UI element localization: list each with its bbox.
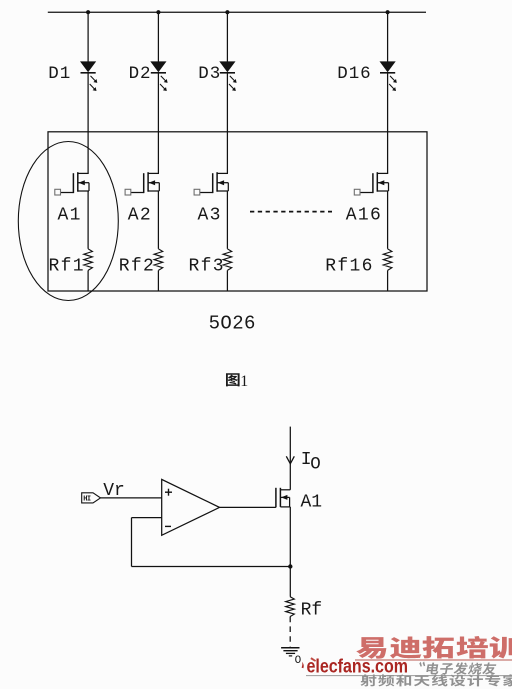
wire resistor Rf2 to box bottom — [157, 270, 159, 291]
svg-text:D3: D3 — [198, 64, 221, 84]
node junction dot column 16 — [386, 10, 390, 14]
wire resistor Rf16 to box bottom — [387, 270, 389, 291]
svg-text:A2: A2 — [128, 206, 152, 226]
node junction dot column 1 — [86, 10, 90, 14]
watermark text 易迪拓培训 — [356, 636, 512, 659]
MOSFET A3 — [194, 172, 228, 195]
wire MOSFET A1 source to resistor Rf1 — [87, 191, 89, 249]
LED diode D16 — [380, 62, 397, 91]
resistor Rf — [286, 597, 295, 617]
wire LED D16 cathode into box — [387, 73, 389, 174]
wire op-amp output to gate — [220, 506, 276, 508]
svg-text:Rf16: Rf16 — [325, 257, 373, 277]
LED diode D3 — [220, 62, 237, 91]
svg-text:Rf3: Rf3 — [189, 257, 225, 277]
wire resistor Rf1 to box bottom — [87, 270, 89, 291]
wire feedback horizontal to node — [132, 566, 291, 568]
svg-text:A1: A1 — [301, 493, 323, 513]
svg-text:Vr: Vr — [103, 481, 125, 501]
MOSFET A2 — [125, 172, 159, 195]
node junction dot column 2 — [156, 10, 160, 14]
wire op-amp minus input feedback left — [132, 517, 162, 519]
svg-text:D2: D2 — [129, 64, 152, 84]
svg-text:A3: A3 — [198, 206, 222, 226]
wire feedback vertical — [131, 518, 133, 567]
LED diode D2 — [151, 62, 168, 91]
wire resistor Rf3 to box bottom — [226, 270, 228, 291]
wire MOSFET A2 source to resistor Rf2 — [157, 191, 159, 249]
svg-text:5O26: 5O26 — [209, 312, 256, 334]
resistor Rf1 — [84, 249, 93, 271]
wire dashed continuation between A3 and A16 — [250, 211, 332, 213]
wire top supply rail — [48, 11, 426, 13]
node junction dot column 3 — [225, 10, 229, 14]
svg-text:D16: D16 — [337, 64, 371, 84]
svg-text:D1: D1 — [48, 64, 71, 84]
watermark quote mark — [419, 661, 425, 666]
node feedback junction dot — [288, 564, 292, 568]
svg-text:O: O — [295, 655, 302, 667]
wire rail to LED D3 — [226, 12, 228, 62]
watermark red underline — [355, 659, 512, 661]
wire rail to LED D16 — [387, 12, 389, 62]
svg-text:Rf1: Rf1 — [49, 257, 85, 277]
op-amp plus sign — [165, 489, 172, 496]
svg-text:1: 1 — [240, 373, 248, 390]
MOSFET A1 output stage — [276, 488, 290, 508]
resistor Rf16 — [383, 249, 392, 271]
ellipse highlight around A1/Rf1 column — [18, 142, 118, 301]
wire MOSFET A3 source to resistor Rf3 — [226, 191, 228, 249]
MOSFET A16 — [354, 172, 388, 195]
op-amp U1 — [162, 479, 220, 535]
svg-text:HI: HI — [83, 496, 91, 504]
wire LED D2 cathode into box — [157, 73, 159, 174]
watermark text 射频和天线设计专家 — [361, 674, 512, 686]
svg-text:Rf: Rf — [301, 601, 323, 621]
wire rail to LED D1 — [87, 12, 89, 62]
MOSFET A1 — [55, 172, 89, 195]
resistor Rf2 — [154, 249, 163, 271]
wire LED D1 cathode into box — [87, 73, 89, 174]
svg-text:A16: A16 — [346, 206, 382, 226]
watermark text 电子发烧友 — [426, 662, 497, 674]
wire drain top (I0 branch) — [289, 427, 291, 490]
wire dashed to ground — [289, 617, 291, 647]
input terminal tag Vr (HI) — [82, 493, 101, 503]
IC box 5026 outline — [48, 132, 427, 291]
wire Vr to op-amp plus input — [101, 497, 162, 499]
wire LED D3 cathode into box — [226, 73, 228, 174]
LED diode D1 — [81, 62, 98, 91]
ground symbol — [281, 648, 299, 656]
wire MOSFET A16 source to resistor Rf16 — [387, 191, 389, 249]
watermark logo accent marks — [302, 662, 304, 668]
wire rail to LED D2 — [157, 12, 159, 62]
svg-text:elecfans.com: elecfans.com — [307, 657, 409, 678]
current arrow I0 — [286, 456, 294, 464]
wire MOSFET source down to feedback node — [289, 507, 291, 597]
svg-text:A1: A1 — [58, 206, 82, 226]
watermark gray underline — [306, 675, 512, 677]
svg-text:Rf2: Rf2 — [119, 257, 155, 277]
caption figure label 图1 — [226, 373, 240, 386]
op-amp minus sign — [165, 525, 171, 527]
resistor Rf3 — [223, 249, 232, 271]
svg-text:O: O — [310, 455, 321, 475]
